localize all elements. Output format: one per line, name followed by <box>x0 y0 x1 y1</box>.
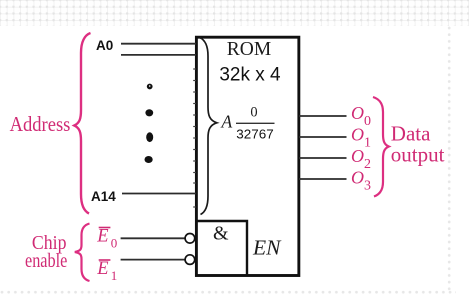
AND-qualifier box (enable gate) <box>196 221 247 276</box>
wire O3 <box>299 178 347 180</box>
svg-text:1: 1 <box>111 268 118 283</box>
svg-text:0: 0 <box>250 105 257 121</box>
wire O1 <box>299 136 347 138</box>
brace Data output <box>373 97 389 197</box>
wire O2 <box>299 157 347 159</box>
wire E0 <box>121 237 185 239</box>
svg-text:output: output <box>391 143 445 167</box>
ellipsis dot 2 <box>145 109 153 116</box>
svg-text:A14: A14 <box>91 189 116 204</box>
svg-text:A0: A0 <box>96 38 113 53</box>
wire E1 <box>121 259 185 261</box>
ellipsis dot 4 <box>145 156 153 163</box>
ellipsis dot 1 <box>147 84 153 90</box>
svg-text:A: A <box>221 112 233 132</box>
fraction bar <box>236 122 275 124</box>
svg-text:Address: Address <box>10 112 71 136</box>
inversion bubble E1 <box>185 255 195 265</box>
svg-text:EN: EN <box>252 236 282 260</box>
label E0 with overbar <box>99 227 111 229</box>
label E1 with overbar <box>99 259 111 261</box>
address range brace (inside ROM) <box>200 38 217 215</box>
svg-text:32767: 32767 <box>236 127 273 142</box>
address input ticks on ROM left edge <box>193 69 196 207</box>
brace Address <box>74 33 90 214</box>
svg-text:0: 0 <box>111 236 118 251</box>
svg-text:ROM: ROM <box>227 39 271 60</box>
svg-text:32k x 4: 32k x 4 <box>219 65 281 86</box>
wire A14 <box>122 193 196 195</box>
svg-text:enable: enable <box>25 250 67 272</box>
wire A0 lower <box>121 54 196 56</box>
ellipsis dot 3 <box>146 132 153 142</box>
wire O0 <box>299 115 347 117</box>
svg-text:E: E <box>96 259 108 279</box>
wire A0 upper <box>121 43 196 45</box>
svg-text:&: & <box>213 223 229 245</box>
brace Chip enable <box>75 224 90 282</box>
ROM block U1 <box>196 37 298 275</box>
inversion bubble E0 <box>185 234 195 244</box>
svg-text:E: E <box>96 227 108 247</box>
